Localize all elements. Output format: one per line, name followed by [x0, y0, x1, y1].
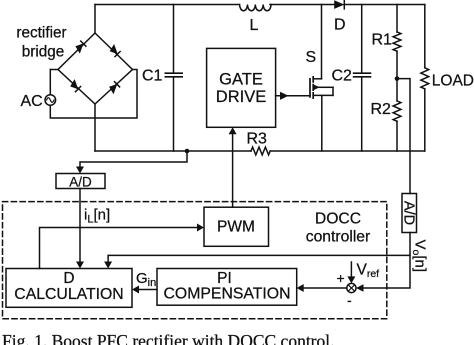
resistor R1	[393, 5, 401, 101]
wire bottom rail right segment	[270, 150, 425, 152]
svg-text:R3: R3	[247, 131, 268, 148]
wire branch to PWM	[40, 224, 205, 269]
wire bridge top to rail	[94, 5, 96, 34]
A/D converter left box	[56, 174, 105, 189]
wire A/D to D calculation	[76, 189, 84, 269]
arrow into summer	[356, 284, 364, 292]
label PI compensation	[164, 270, 291, 303]
wire PWM to gate drive	[229, 127, 237, 207]
wire bridge bottom to rail	[94, 104, 96, 151]
svg-text:AC: AC	[21, 93, 43, 110]
svg-text:bridge: bridge	[22, 44, 65, 61]
node output divider junction	[395, 76, 400, 81]
svg-text:R2: R2	[371, 101, 392, 118]
svg-text:A/D: A/D	[69, 175, 92, 190]
wire top rail left segment	[95, 4, 239, 6]
rectifier bridge diamond	[58, 33, 133, 104]
svg-text:D: D	[334, 17, 346, 34]
diode bridge lower-left	[70, 79, 80, 92]
resistor LOAD	[421, 5, 429, 152]
wire summer to PI compensation	[297, 284, 347, 292]
svg-text:DOCC: DOCC	[315, 210, 361, 227]
svg-text:DRIVE: DRIVE	[216, 88, 266, 106]
gate drive box U1	[207, 48, 276, 127]
wire A/D down to summer	[359, 233, 410, 289]
svg-text:L: L	[250, 17, 259, 34]
D calculation box	[6, 269, 132, 308]
svg-text:PWM: PWM	[217, 219, 255, 236]
resistor R2	[393, 101, 401, 151]
svg-text:C1: C1	[142, 68, 163, 85]
svg-text:R1: R1	[372, 32, 393, 49]
wire bottom rail left segment	[95, 150, 251, 152]
svg-text:GATE: GATE	[219, 71, 263, 89]
svg-text:Fig. 1. Boost PFC rectifier wi: Fig. 1. Boost PFC rectifier with DOCC co…	[2, 331, 335, 345]
diode bridge upper-right	[110, 44, 120, 57]
svg-text:rectifier: rectifier	[16, 25, 66, 42]
A/D converter right box	[402, 194, 417, 233]
svg-text:+: +	[337, 270, 345, 286]
label D calculation	[14, 270, 123, 303]
svg-text:D: D	[63, 270, 74, 287]
diode bridge lower-right	[109, 82, 120, 95]
wire top rail mid segment	[270, 4, 335, 6]
diode bridge upper-left	[75, 41, 86, 54]
wire AC bottom lead and loop	[50, 70, 137, 119]
wire AC top lead	[49, 70, 51, 95]
svg-text:Vo[n]: Vo[n]	[410, 240, 429, 273]
svg-text:COMPENSATION: COMPENSATION	[164, 286, 291, 303]
transistor Q1 MOSFET switch S	[310, 5, 333, 152]
DOCC controller dashed box	[3, 202, 387, 319]
wire left vertex stub	[50, 69, 58, 71]
PWM box	[204, 207, 269, 246]
wire top rail right segment	[344, 4, 425, 6]
svg-text:LOAD: LOAD	[432, 73, 474, 90]
wire gate drive to gate	[276, 92, 310, 100]
wire current sense to A/D	[76, 151, 187, 174]
inductor L	[240, 5, 271, 11]
capacitor C2	[354, 5, 371, 152]
wire Vref into summer	[347, 262, 355, 283]
svg-text:C2: C2	[332, 68, 353, 85]
svg-text:PI: PI	[217, 270, 232, 287]
label rectifier bridge	[16, 25, 66, 61]
summing junction	[347, 283, 356, 292]
svg-text:-: -	[347, 292, 352, 308]
svg-text:A/D: A/D	[400, 201, 416, 225]
wire divider tap	[397, 79, 410, 194]
label GATE DRIVE	[216, 71, 266, 107]
resistor R3	[251, 147, 270, 155]
AC source	[45, 95, 56, 106]
label DOCC controller	[306, 210, 371, 245]
diode D	[334, 0, 344, 9]
svg-text:CALCULATION: CALCULATION	[14, 286, 123, 303]
node bottom rail junction	[185, 149, 190, 154]
capacitor C1	[165, 5, 182, 152]
PI compensation box	[157, 269, 297, 306]
wire Vo[n] feedback to D calculation	[104, 255, 410, 268]
wire PI to D calculation	[132, 286, 157, 294]
svg-text:S: S	[306, 49, 317, 66]
svg-text:controller: controller	[306, 228, 371, 245]
